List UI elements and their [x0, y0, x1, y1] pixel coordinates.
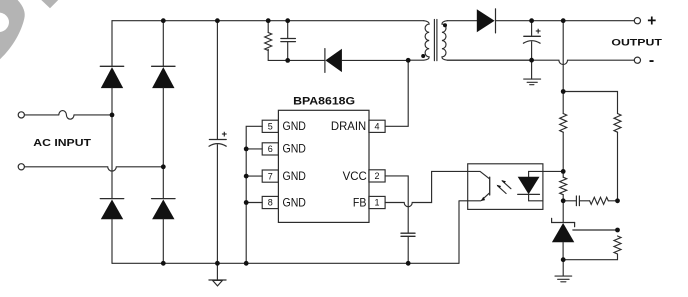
wire vcc column	[385, 176, 408, 233]
svg-text:8: 8	[268, 198, 273, 208]
wire branch2 bottom	[162, 219, 164, 263]
ground primary chassis	[209, 263, 226, 286]
node AC line bridge	[110, 113, 115, 118]
node branch2 top	[161, 18, 166, 23]
watermark ring top-left	[0, 0, 58, 59]
svg-text:VCC: VCC	[343, 169, 368, 183]
transformer T1 secondary winding	[442, 21, 532, 61]
node snubber C top	[285, 18, 290, 23]
svg-text:GND: GND	[283, 169, 306, 183]
wire branch1 bottom	[111, 219, 113, 263]
wire output minus rail with hop	[447, 60, 634, 64]
fuse F1	[59, 111, 74, 120]
resistor R1 snubber	[265, 21, 272, 61]
svg-text:+: +	[222, 129, 228, 140]
pin 5 box	[262, 120, 278, 132]
node gnd pin6	[244, 147, 249, 152]
node drain primary	[406, 58, 411, 63]
capacitor C1 bulk electrolytic	[209, 21, 226, 264]
svg-text:5: 5	[268, 122, 273, 132]
node out plus cap	[529, 18, 534, 23]
terminal AC line	[18, 112, 24, 118]
wire pin7 stub	[246, 175, 262, 177]
wire divider branch	[563, 92, 617, 114]
node comp right	[615, 198, 620, 203]
TL431 U3 shunt regulator	[552, 201, 575, 260]
resistor R3 divider upper	[614, 114, 621, 201]
wire opto emitter to ground rail	[459, 201, 468, 263]
IC U1 body	[278, 110, 369, 222]
capacitor C3 vcc	[401, 233, 415, 263]
node out minus cap	[529, 58, 534, 63]
node rail branch2	[161, 261, 166, 266]
optocoupler U2 light arrows	[497, 180, 511, 194]
svg-text:FB: FB	[353, 195, 367, 209]
ground earth output cap	[524, 60, 541, 84]
node rail bulk cap	[215, 261, 220, 266]
optocoupler U2 LED	[518, 171, 543, 200]
resistor R6 divider lower	[563, 236, 621, 260]
svg-text:+: +	[535, 26, 541, 37]
node out plus divider	[561, 18, 566, 23]
resistor R5 compensation	[590, 197, 618, 204]
wire output plus rail	[496, 20, 635, 22]
node bulk cap top	[215, 18, 220, 23]
node gnd pin8	[244, 200, 249, 205]
diode D4 bridge lower-right	[152, 199, 175, 220]
wire FB with hop over vcc column	[385, 171, 468, 206]
node rail ic gnd	[244, 261, 249, 266]
diode D3 bridge lower-left	[100, 199, 123, 220]
wire bridge branch1 top	[111, 21, 113, 67]
transformer T1 core	[434, 19, 437, 60]
wire pin6 stub	[246, 148, 262, 150]
wire clamp to primary	[342, 59, 408, 61]
resistor R4 parallel LED	[560, 171, 567, 200]
wire top rail primary	[112, 20, 424, 22]
node phase dot primary	[421, 54, 425, 58]
pin 4 box	[369, 120, 385, 132]
svg-text:GND: GND	[283, 119, 306, 133]
terminal AC neutral	[18, 164, 24, 170]
svg-text:DRAIN: DRAIN	[331, 119, 366, 133]
wire feedback column top	[562, 21, 564, 92]
svg-text:4: 4	[374, 122, 379, 132]
svg-text:+: +	[647, 13, 656, 30]
wire branch2 mid	[162, 88, 164, 199]
node rail vcc cap	[406, 261, 411, 266]
optocoupler U2 box	[468, 164, 543, 210]
diode D5 clamp	[325, 49, 342, 73]
node divider top	[561, 89, 566, 94]
node ref	[615, 228, 620, 233]
svg-text:2: 2	[374, 171, 379, 181]
pin 8 box	[262, 196, 278, 208]
svg-text:GND: GND	[283, 195, 306, 209]
svg-text:1: 1	[374, 198, 379, 208]
wire AC line to fuse	[25, 114, 59, 116]
wire snubber bottom	[268, 59, 324, 61]
node AC neutral bridge	[161, 164, 166, 169]
terminal output plus	[634, 18, 640, 24]
terminal output minus	[634, 57, 640, 63]
svg-text:AC INPUT: AC INPUT	[33, 137, 91, 149]
pin 7 box	[262, 170, 278, 182]
pin 6 box	[262, 143, 278, 155]
capacitor C4 output electrolytic	[523, 21, 540, 61]
node snubber R top	[266, 18, 271, 23]
wire fuse to bridge	[74, 114, 112, 116]
wire IC gnd column	[246, 126, 262, 263]
node opto anode	[561, 169, 566, 174]
wire pin8 stub	[246, 202, 262, 204]
node snubber bottom	[285, 58, 290, 63]
wire opto anode row	[543, 170, 563, 172]
svg-text:6: 6	[268, 144, 273, 154]
wire bottom ground rail	[112, 262, 459, 264]
ground earth TL431	[555, 260, 572, 282]
wire branch1 mid	[111, 88, 113, 199]
svg-text:BPA8618G: BPA8618G	[293, 96, 355, 108]
node gnd pin7	[244, 174, 249, 179]
node phase dot secondary	[443, 23, 447, 27]
svg-text:7: 7	[268, 171, 273, 181]
wire TL431 ref	[573, 229, 618, 231]
node opto cathode	[561, 198, 566, 203]
pin 1 box	[369, 196, 385, 208]
transformer T1 primary winding	[408, 21, 429, 61]
pin 2 box	[369, 170, 385, 182]
diode D6 output rectifier	[477, 9, 496, 33]
wire secondary top to diode	[447, 20, 477, 22]
svg-text:GND: GND	[283, 142, 306, 156]
capacitor C2 snubber	[281, 21, 296, 61]
wire bridge branch2 top	[162, 21, 164, 67]
optocoupler U2 phototransistor	[468, 171, 490, 201]
resistor R2 opto series	[560, 92, 567, 172]
capacitor C5 compensation	[563, 196, 589, 206]
svg-text:-: -	[649, 52, 654, 69]
svg-text:OUTPUT: OUTPUT	[611, 38, 662, 49]
wire drain column	[385, 60, 408, 126]
node TL431 anode	[561, 257, 566, 262]
diode D2 bridge upper-right	[152, 66, 175, 88]
wire AC neutral with hop over branch1	[25, 167, 164, 171]
diode D1 bridge upper-left	[100, 66, 123, 88]
